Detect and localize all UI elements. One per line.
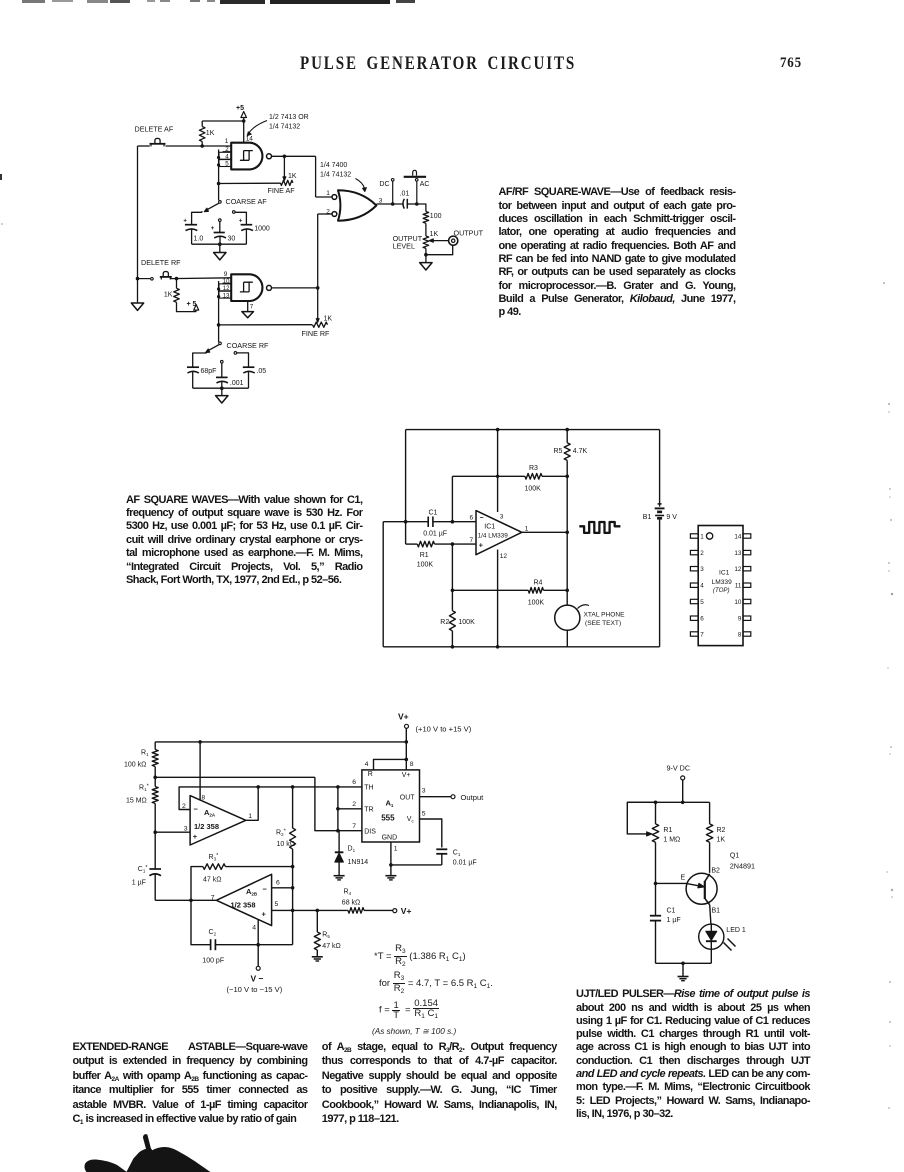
node top bus junction (pin3) bbox=[496, 428, 500, 432]
svg-text:R3*: R3* bbox=[209, 853, 220, 862]
node R2* top junction bbox=[291, 785, 295, 789]
svg-text:D1: D1 bbox=[348, 846, 356, 854]
output bubble U1a bbox=[267, 154, 272, 159]
node DELETE RF left junction bbox=[136, 277, 140, 281]
svg-text:1/4 LM339: 1/4 LM339 bbox=[478, 532, 509, 539]
svg-text:13: 13 bbox=[734, 550, 742, 557]
node pin5 junction bbox=[291, 909, 295, 913]
wire DELETE AF line to gate U1a pin 1 bbox=[138, 145, 150, 147]
wire right contact to capacitor 1000 bbox=[235, 212, 246, 224]
wire top supply bus bbox=[155, 741, 406, 743]
potentiometer 1K FINE RF bbox=[313, 322, 328, 327]
node pin6/R3 junction bbox=[451, 520, 455, 524]
resistor R4 100K bbox=[451, 544, 453, 590]
ground (COARSE AF) bbox=[219, 244, 221, 252]
capacitor 68pF bbox=[187, 366, 199, 368]
wire R1 wiper loop (rheostat) bbox=[627, 802, 655, 834]
resistor R3 100K (feedback) bbox=[451, 476, 453, 521]
svg-text:1/2 358: 1/2 358 bbox=[194, 822, 219, 831]
svg-text:5: 5 bbox=[700, 599, 704, 606]
node C1 input line junction bbox=[404, 520, 408, 524]
svg-text:TR: TR bbox=[364, 806, 373, 813]
LED light rays bbox=[724, 943, 732, 951]
svg-text:DELETE AF: DELETE AF bbox=[135, 124, 174, 133]
wire DIS line into 555 pin 7 bbox=[338, 830, 362, 832]
svg-text:AC: AC bbox=[420, 181, 430, 188]
node pin6 junction bbox=[291, 886, 295, 890]
svg-text:100 pF: 100 pF bbox=[202, 958, 224, 965]
svg-text:4: 4 bbox=[252, 924, 256, 931]
svg-text:3: 3 bbox=[184, 825, 188, 832]
svg-text:1 µF: 1 µF bbox=[667, 917, 681, 924]
svg-text:R4: R4 bbox=[534, 579, 543, 586]
node U1b output junction bbox=[316, 286, 320, 290]
wire right contact to capacitor .05 bbox=[237, 353, 249, 367]
svg-text:7: 7 bbox=[250, 303, 254, 310]
op-amp A2A (1/2 358) buffer bbox=[190, 796, 246, 845]
wire COARSE RF bottom bus bbox=[193, 387, 249, 389]
LED 1 bbox=[699, 924, 724, 949]
svg-text:IC1: IC1 bbox=[484, 524, 495, 531]
wire U1b output to node bbox=[272, 287, 318, 289]
svg-text:100: 100 bbox=[430, 213, 442, 220]
battery B1 9V bbox=[659, 430, 661, 507]
transistor Q1 2N4891 UJT bbox=[686, 873, 717, 904]
capacitor .05 bbox=[243, 366, 255, 368]
ground (pulser) bbox=[682, 963, 684, 976]
svg-text:R4: R4 bbox=[344, 889, 352, 897]
gate U1b pin 7 ground bbox=[247, 301, 249, 312]
svg-text:C1: C1 bbox=[453, 849, 461, 857]
node output junction bbox=[565, 531, 569, 535]
svg-text:1: 1 bbox=[700, 534, 704, 541]
wire feedback line to 555 TH pin 6 bbox=[258, 786, 338, 788]
wire to capacitor 68pF bbox=[193, 353, 206, 367]
Schmitt hysteresis symbol U1a bbox=[240, 151, 253, 161]
svg-text:8: 8 bbox=[202, 795, 206, 802]
wire U2 output to coupling network bbox=[376, 203, 403, 205]
svg-text:4: 4 bbox=[700, 583, 704, 590]
svg-text:0.01 µF: 0.01 µF bbox=[423, 530, 447, 537]
resistor R2 100K bbox=[451, 590, 453, 610]
wire 555 Vc pin 5 to C1 bbox=[420, 819, 442, 848]
svg-text:6: 6 bbox=[700, 616, 704, 623]
potentiometer 1K OUTPUT LEVEL bbox=[423, 236, 429, 248]
resistor 1K (pull-up, gate U1a input) bbox=[201, 121, 203, 127]
pot wiper to output jack bbox=[432, 240, 449, 242]
svg-text:6: 6 bbox=[276, 880, 280, 887]
Schmitt NAND gate U1a (1/2 7413) bbox=[231, 143, 262, 170]
resistor R1 100k bbox=[154, 742, 156, 750]
text block: EXTENDED-RANGE ASTABLE caption right column bbox=[322, 1040, 557, 1126]
capacitor C1* 1uF bbox=[154, 832, 156, 869]
svg-text:9: 9 bbox=[738, 616, 742, 623]
svg-text:1/2 7413 OR: 1/2 7413 OR bbox=[269, 114, 309, 121]
wire outer rail to R1 line bbox=[405, 522, 407, 544]
leader arrow to gate U1a bbox=[249, 121, 268, 134]
node R4 left junction bbox=[451, 589, 455, 593]
wire +5 node to gate U1 pin 14 bbox=[243, 121, 245, 143]
svg-text:1: 1 bbox=[326, 190, 330, 197]
svg-text:GND: GND bbox=[382, 835, 398, 842]
svg-text:B1: B1 bbox=[643, 514, 652, 521]
svg-text:.01: .01 bbox=[400, 190, 410, 197]
node pin7/R2 junction bbox=[451, 542, 455, 546]
node DELETE RF right junction bbox=[175, 277, 179, 281]
svg-text:R1*: R1* bbox=[139, 784, 150, 793]
node gate input junction bbox=[200, 144, 204, 148]
svg-text:R5: R5 bbox=[554, 448, 563, 455]
svg-text:9 V: 9 V bbox=[666, 514, 677, 521]
svg-text:.05: .05 bbox=[256, 368, 266, 375]
svg-text:9: 9 bbox=[224, 271, 228, 278]
wire bottom bus bbox=[383, 646, 659, 648]
text block: AF/RF SQUARE-WAVE caption bbox=[499, 186, 736, 319]
wire FINE AF to tied inputs bbox=[219, 182, 281, 184]
svg-text:−: − bbox=[194, 805, 199, 814]
svg-text:C1: C1 bbox=[429, 509, 438, 516]
svg-text:+: + bbox=[239, 218, 243, 224]
svg-text:1: 1 bbox=[248, 813, 252, 820]
resistor R4 68 kohm bbox=[347, 909, 348, 911]
wire COARSE AF bottom bus bbox=[192, 243, 247, 245]
capacitor 1.0 (electrolytic) bbox=[185, 224, 197, 226]
node supply junction bbox=[681, 801, 685, 805]
svg-text:10 kΩ: 10 kΩ bbox=[277, 841, 295, 848]
svg-text:1 µF: 1 µF bbox=[132, 879, 146, 886]
resistor R5 4.7K bbox=[566, 430, 568, 443]
svg-text:12: 12 bbox=[734, 566, 742, 573]
svg-text:3: 3 bbox=[500, 513, 504, 520]
svg-text:V+: V+ bbox=[401, 906, 412, 916]
wire 555 GND pin 1 bbox=[390, 842, 392, 876]
svg-text:DIS: DIS bbox=[364, 828, 376, 835]
svg-text:E: E bbox=[681, 875, 686, 882]
svg-text:8: 8 bbox=[410, 761, 414, 768]
node AC junction bbox=[415, 202, 419, 206]
svg-text:68 kΩ: 68 kΩ bbox=[342, 900, 360, 907]
svg-text:100K: 100K bbox=[525, 486, 542, 493]
svg-text:100K: 100K bbox=[458, 619, 475, 626]
svg-text:Vc: Vc bbox=[407, 816, 415, 824]
wire C1 input line bbox=[383, 521, 428, 523]
svg-text:1: 1 bbox=[225, 138, 229, 145]
svg-text:R: R bbox=[368, 771, 373, 778]
svg-text:Q1: Q1 bbox=[730, 850, 740, 859]
svg-text:1N914: 1N914 bbox=[348, 859, 369, 866]
node R1 top junction bbox=[654, 801, 658, 805]
wire output rail down bbox=[566, 476, 568, 605]
comparator IC1 1/4 LM339 bbox=[476, 511, 522, 555]
svg-text:7: 7 bbox=[211, 894, 215, 901]
wire 555 V+ pin 8 bbox=[405, 742, 407, 770]
node C2/pin4 junction bbox=[256, 943, 260, 947]
potentiometer 1K FINE AF bbox=[280, 180, 293, 185]
svg-text:−: − bbox=[480, 515, 484, 522]
wire left rail down from DELETE AF bbox=[137, 146, 139, 279]
svg-text:6: 6 bbox=[352, 779, 356, 786]
svg-text:FINE RF: FINE RF bbox=[302, 329, 331, 338]
node COARSE RF ground junction bbox=[220, 386, 224, 390]
ground (D1) bbox=[334, 875, 345, 877]
wire top bus bbox=[627, 801, 709, 803]
ground (left rail) bbox=[137, 279, 139, 303]
top page-edge dashes bbox=[22, 0, 45, 3]
svg-text:+: + bbox=[262, 910, 267, 919]
svg-text:R5: R5 bbox=[322, 932, 330, 940]
svg-text:(TOP): (TOP) bbox=[713, 587, 730, 594]
svg-text:15 MΩ: 15 MΩ bbox=[126, 798, 147, 805]
left edge tick bbox=[0, 174, 2, 180]
wire A2A pin 2 follower loop bbox=[179, 787, 258, 810]
svg-text:7: 7 bbox=[700, 632, 704, 639]
wire comparator pin 12 to bottom bus bbox=[497, 550, 499, 647]
svg-text:2: 2 bbox=[326, 208, 330, 215]
svg-text:COARSE RF: COARSE RF bbox=[227, 341, 270, 350]
svg-text:14: 14 bbox=[246, 135, 254, 142]
wire C1 bottom to GND rail bbox=[391, 864, 442, 866]
svg-text:1.0: 1.0 bbox=[194, 235, 204, 242]
svg-text:7: 7 bbox=[470, 537, 474, 544]
wire pot bottom to jack sleeve bbox=[425, 248, 427, 254]
wire emitter line bbox=[656, 882, 687, 884]
svg-text:5: 5 bbox=[225, 161, 229, 168]
svg-text:R2: R2 bbox=[717, 827, 726, 834]
svg-text:47 kΩ: 47 kΩ bbox=[322, 943, 340, 950]
node R2 bottom junction bbox=[451, 645, 455, 649]
ground (R5) bbox=[312, 956, 323, 958]
svg-text:68pF: 68pF bbox=[201, 368, 217, 375]
DIP left pins 1-7 bbox=[690, 534, 698, 538]
wire comparator output pin 1 bbox=[522, 531, 567, 533]
svg-text:6: 6 bbox=[470, 515, 474, 522]
svg-text:C1*: C1* bbox=[138, 865, 149, 874]
svg-text:V −: V − bbox=[251, 974, 264, 984]
svg-text:LM339: LM339 bbox=[712, 579, 732, 586]
wire C1* to A2B pin 7 (output) bbox=[155, 899, 216, 901]
timer A1 555 block bbox=[362, 770, 420, 842]
wire TH/TR/DIS rail bbox=[337, 787, 339, 831]
capacitor 1000 (electrolytic) bbox=[241, 224, 253, 226]
svg-text:DELETE RF: DELETE RF bbox=[141, 258, 181, 267]
Schmitt NAND gate U1b (2nd half 7413) bbox=[231, 274, 262, 301]
wire node to resistor 100 bbox=[417, 204, 426, 212]
svg-text:4: 4 bbox=[365, 761, 369, 768]
node R3 right junction bbox=[565, 475, 569, 479]
wire A2A pin 8 to bus bbox=[199, 742, 201, 801]
wire phone to bottom bus bbox=[566, 630, 568, 647]
page number 765 bbox=[780, 53, 802, 71]
capacitor .001 bbox=[216, 376, 228, 378]
node ground junction bbox=[681, 962, 685, 966]
wire FINE RF to tied inputs bbox=[219, 324, 313, 326]
node E junction bbox=[654, 882, 658, 886]
svg-text:100K: 100K bbox=[417, 562, 434, 569]
svg-text:+ 5: + 5 bbox=[187, 301, 197, 308]
svg-text:1K: 1K bbox=[206, 130, 215, 137]
svg-text:2: 2 bbox=[700, 550, 704, 557]
svg-text:1: 1 bbox=[525, 525, 529, 532]
scan ink blob (bottom left) bbox=[85, 1160, 126, 1172]
svg-text:11: 11 bbox=[735, 583, 742, 590]
svg-text:IC1: IC1 bbox=[719, 569, 730, 576]
svg-text:100K: 100K bbox=[528, 599, 545, 606]
leader arrow to gate U2 bbox=[356, 179, 365, 189]
svg-text:1K: 1K bbox=[324, 316, 333, 323]
ground (555 GND) bbox=[385, 875, 396, 877]
svg-text:10: 10 bbox=[734, 599, 742, 606]
svg-text:3: 3 bbox=[700, 566, 704, 573]
wire left outer rail bbox=[405, 430, 407, 522]
wire middle contact to capacitor 30 bbox=[219, 219, 222, 222]
svg-text:1/4 74132: 1/4 74132 bbox=[269, 124, 300, 131]
NOR gate U2 (1/4 7400) with input bubbles bbox=[332, 195, 337, 200]
wire comparator V+ pin 3 to top bus bbox=[497, 430, 499, 512]
svg-text:12: 12 bbox=[500, 553, 508, 560]
svg-text:LED 1: LED 1 bbox=[726, 927, 746, 934]
svg-text:1 MΩ: 1 MΩ bbox=[663, 836, 680, 843]
node DIS junction bbox=[336, 829, 340, 833]
wire C1 to comparator pin 6 bbox=[433, 521, 476, 523]
wire pin5 rail to C2 loop bbox=[292, 910, 294, 944]
power V+ terminal (R4) bbox=[393, 909, 397, 913]
ground (COARSE RF) bbox=[221, 388, 223, 395]
op-amp A2B (1/2 358) capacitance multiplier bbox=[216, 874, 271, 925]
node R4 right junction bbox=[565, 589, 569, 593]
wire gate U1a tied inputs bbox=[218, 150, 220, 184]
wire DELETE RF to gate U1b pin 9 bbox=[171, 277, 232, 280]
svg-text:A2B: A2B bbox=[246, 887, 258, 897]
capacitor C2 100pF bbox=[191, 900, 211, 944]
wire R2*/R3*/pin6 rail down to pin 5 line bbox=[292, 867, 294, 911]
wire top supply bus bbox=[406, 429, 660, 431]
wire 555 R pin 4 loop to V+ bbox=[374, 759, 407, 770]
text block: EXTENDED-RANGE ASTABLE caption left column bbox=[73, 1040, 308, 1126]
square-wave output symbol bbox=[579, 522, 620, 533]
svg-text:+: + bbox=[193, 832, 198, 841]
svg-text:R2*: R2* bbox=[276, 828, 287, 837]
svg-text:1/4 74132: 1/4 74132 bbox=[320, 171, 351, 178]
svg-text:3: 3 bbox=[422, 787, 426, 794]
resistor R2* 10 kohm bbox=[292, 787, 294, 828]
diode D1 1N914 bbox=[338, 831, 340, 852]
svg-text:B2: B2 bbox=[711, 868, 720, 875]
formula block for extended-range astable bbox=[374, 944, 466, 969]
svg-text:LEVEL: LEVEL bbox=[393, 241, 415, 250]
DIP right pins 14-8 bbox=[743, 534, 751, 538]
svg-text:R1: R1 bbox=[141, 750, 149, 758]
resistor R1* 15 Mohm bbox=[154, 777, 156, 786]
svg-text:1: 1 bbox=[394, 846, 398, 853]
node R5 top bus junction bbox=[565, 428, 569, 432]
node pin3/C1* junction bbox=[153, 830, 157, 834]
node R5 junction bbox=[316, 909, 320, 913]
svg-text:A2A: A2A bbox=[204, 808, 216, 818]
wire 1K to +5 arrow bbox=[177, 302, 196, 311]
wire to capacitor 1.0 bbox=[192, 212, 202, 224]
svg-text:1000: 1000 bbox=[254, 226, 270, 233]
wire A2A output pin 1 bbox=[246, 787, 258, 820]
svg-text:R1: R1 bbox=[663, 827, 672, 834]
svg-text:Output: Output bbox=[461, 793, 485, 802]
output jack (OUTPUT) bbox=[449, 236, 458, 245]
node R3* right junction bbox=[291, 865, 295, 869]
page header title bbox=[300, 54, 576, 75]
svg-text:2N4891: 2N4891 bbox=[730, 862, 755, 871]
svg-text:(SEE TEXT): (SEE TEXT) bbox=[585, 620, 621, 627]
power V- terminal bbox=[257, 945, 259, 967]
node TR junction bbox=[336, 807, 340, 811]
resistor R3* 47 kohm (A2B feedback) bbox=[191, 867, 203, 901]
gate U1a input pin boxes 2,4,5 bbox=[223, 151, 232, 153]
svg-text:+: + bbox=[211, 226, 215, 232]
svg-text:1K: 1K bbox=[164, 291, 173, 298]
svg-text:OUTPUT: OUTPUT bbox=[454, 228, 484, 237]
wire A2A pin 3 input bbox=[155, 831, 190, 833]
capacitor C1 0.01uF (555 control) bbox=[436, 848, 447, 850]
svg-text:9-V DC: 9-V DC bbox=[667, 763, 691, 772]
svg-text:7: 7 bbox=[352, 823, 356, 830]
svg-text:555: 555 bbox=[381, 814, 395, 823]
node TH junction bbox=[336, 785, 340, 789]
resistor R1 100K bbox=[417, 541, 434, 547]
svg-text:A1: A1 bbox=[386, 799, 394, 809]
svg-text:(−10 V to −15 V): (−10 V to −15 V) bbox=[227, 985, 283, 994]
svg-text:R2: R2 bbox=[440, 619, 449, 626]
svg-text:1K: 1K bbox=[288, 173, 297, 180]
pin 1 index circle bbox=[706, 533, 712, 539]
svg-text:B1: B1 bbox=[712, 908, 721, 915]
svg-text:5: 5 bbox=[275, 901, 279, 908]
text block: AF SQUARE WAVES caption bbox=[126, 494, 363, 587]
resistor 100 bbox=[423, 212, 429, 224]
resistor R5 47 kohm bbox=[316, 910, 318, 932]
svg-text:1/4 7400: 1/4 7400 bbox=[320, 162, 347, 169]
wire B1 to LED bbox=[710, 905, 711, 924]
wire 555 OUT pin 3 to Output terminal bbox=[420, 796, 452, 798]
svg-text:1K: 1K bbox=[717, 836, 726, 843]
wire AC to node bbox=[416, 181, 418, 204]
svg-text:1/2 358: 1/2 358 bbox=[231, 900, 256, 909]
node U1a output feedback junction bbox=[283, 155, 287, 159]
svg-text:+: + bbox=[479, 541, 484, 550]
resistor R2 1K bbox=[709, 802, 711, 824]
svg-text:XTAL PHONE: XTAL PHONE bbox=[584, 612, 626, 619]
wire node up to NOR gate input 2 bbox=[317, 214, 319, 288]
switch contacts RF bbox=[206, 352, 207, 353]
node V+ top bus junction bbox=[405, 740, 409, 744]
wire output node down to FINE AF pot wiper bbox=[283, 156, 285, 177]
svg-text:13: 13 bbox=[223, 293, 230, 299]
svg-text:C1: C1 bbox=[667, 907, 676, 914]
svg-text:R1: R1 bbox=[420, 552, 429, 559]
svg-text:FINE AF: FINE AF bbox=[268, 186, 296, 195]
terminal Output bbox=[451, 795, 455, 799]
svg-text:(+10 V to +15 V): (+10 V to +15 V) bbox=[416, 725, 472, 734]
svg-text:4.7K: 4.7K bbox=[573, 448, 588, 455]
wire A2B pin 6 to node bbox=[272, 887, 293, 889]
svg-text:.001: .001 bbox=[230, 380, 244, 387]
svg-text:OUT: OUT bbox=[400, 794, 416, 801]
node R3/pin3 crossing dot bbox=[496, 475, 499, 478]
capacitor 30 (electrolytic) bbox=[214, 232, 225, 234]
svg-text:DC: DC bbox=[379, 181, 389, 188]
wire TR stub to 555 pin 2 bbox=[338, 808, 362, 810]
node COARSE AF ground junction bbox=[218, 242, 222, 246]
svg-text:V+: V+ bbox=[398, 711, 409, 721]
node A2A pin8 bus junction bbox=[198, 740, 202, 744]
output bubble U1b bbox=[267, 285, 272, 290]
